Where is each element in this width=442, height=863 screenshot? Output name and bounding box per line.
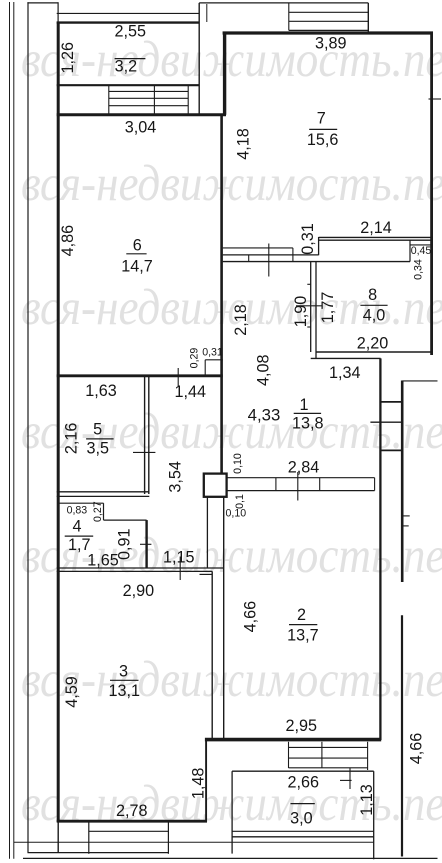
svg-text:13,8: 13,8 [292, 415, 324, 433]
svg-text:4,66: 4,66 [241, 601, 259, 633]
svg-text:2,66: 2,66 [288, 773, 320, 791]
svg-text:0,10: 0,10 [232, 453, 244, 474]
wall: elevator right [367, 3, 369, 32]
svg-text:2,78: 2,78 [116, 802, 148, 820]
wall: room 5 bottom line 1 [57, 491, 150, 493]
window: room 2 balcony line 1 [289, 746, 368, 748]
room 3 underline [110, 679, 139, 681]
wall: left wall lower extension [57, 822, 59, 853]
svg-text:3,89: 3,89 [315, 34, 347, 52]
wall: right shaft rung 3 [380, 449, 402, 451]
wall: opening divider 1 [248, 255, 250, 262]
wall: main left wall [57, 22, 60, 823]
svg-text:3,2: 3,2 [115, 57, 138, 75]
svg-text:1,15: 1,15 [163, 549, 195, 567]
wire: outer thin line left A [9, 2, 11, 859]
svg-text:0,29: 0,29 [189, 348, 201, 369]
svg-text:7: 7 [317, 109, 326, 127]
wall: corridor opening band bottom / room 8 top [223, 261, 410, 263]
balcony 3,0 inner bottom [232, 830, 374, 832]
wall: room 7 top [223, 31, 433, 34]
window: room 2 balcony mullion [321, 742, 323, 768]
wall: room 4 top [60, 502, 104, 504]
tick: right shaft small 2 [402, 525, 409, 527]
svg-text:2,16: 2,16 [63, 423, 81, 455]
svg-text:3,5: 3,5 [87, 440, 110, 458]
svg-text:2: 2 [297, 606, 306, 624]
wall: room 3 right lower [205, 740, 207, 822]
svg-text:4,18: 4,18 [234, 128, 252, 160]
wire: outer thin line left B [13, 2, 15, 859]
wall: right shaft vertical upper [401, 381, 404, 583]
svg-text:2,14: 2,14 [360, 219, 392, 237]
wall: room 2 top line 1 [227, 477, 375, 479]
wall: stairwell left [198, 3, 200, 114]
svg-text:2,95: 2,95 [285, 717, 317, 735]
window: room 2 balcony line 2 [289, 757, 368, 759]
window: room 2 top jamb right [319, 478, 321, 491]
svg-text:вся-недвижимость.net: вся-недвижимость.net [21, 32, 442, 88]
wall: room 8 left line 2 [315, 262, 317, 359]
wall: balcony 3,2 top [57, 21, 199, 23]
svg-text:6: 6 [133, 236, 142, 254]
window: room 6 balcony window line 2 [109, 97, 188, 99]
duct 0,29x0,31 left edge [204, 360, 206, 375]
svg-text:1,44: 1,44 [175, 383, 207, 401]
window: room 3 balcony jamb left [88, 822, 90, 854]
wall: room 1 right [379, 358, 381, 740]
wall: right shaft rung 2 [370, 421, 402, 423]
wall: corridor opening band top [223, 247, 293, 249]
area 3,2 overline [115, 58, 146, 60]
svg-text:2,20: 2,20 [357, 334, 389, 352]
wall: connector at room 8 top left [318, 237, 320, 255]
wall: balcony 3,2 parapet thin [57, 12, 199, 14]
wall: room 8 bottom line 1 [316, 351, 432, 353]
balcony 3,0 top [232, 770, 374, 772]
svg-text:вся-недвижимость.net: вся-недвижимость.net [21, 156, 442, 212]
svg-text:0,27: 0,27 [92, 501, 104, 522]
svg-text:0,83: 0,83 [67, 505, 88, 517]
svg-text:1,77: 1,77 [319, 292, 337, 324]
wall: room 7 bottom line 2 [319, 239, 431, 241]
svg-text:1,13: 1,13 [358, 784, 376, 816]
window: room 6 balcony window mullion [153, 86, 155, 114]
svg-text:4,08: 4,08 [254, 354, 272, 386]
svg-text:1,90: 1,90 [292, 296, 310, 328]
area 3,0 overline [291, 803, 315, 805]
window: room 2 balcony jamb right [367, 742, 369, 770]
svg-text:5: 5 [93, 420, 102, 438]
svg-text:3: 3 [119, 662, 128, 680]
svg-text:4,59: 4,59 [63, 676, 81, 708]
svg-text:1: 1 [299, 396, 308, 414]
window: room 3 balcony line 3 [28, 852, 169, 854]
balcony 3,0 right [373, 771, 375, 859]
wall: room 7 bottom line 1 [319, 236, 433, 238]
wall: left outer band top cap [27, 2, 58, 4]
svg-text:4,0: 4,0 [363, 307, 386, 325]
tick: dimension 1,90/1,77 [296, 305, 322, 307]
wall: right shaft rung 1 [380, 401, 402, 403]
tick: door jamb upper [307, 283, 310, 285]
tick: dimension 1,65/1,15 [179, 557, 181, 581]
balcony 3,0 left [231, 771, 233, 853]
room 7 underline [309, 128, 337, 130]
tick: right shaft small 1 [402, 515, 410, 517]
svg-text:3,04: 3,04 [125, 118, 157, 136]
wall: room 6 bottom [57, 374, 223, 377]
duct 0,45x0,34 left edge [409, 240, 411, 261]
window: room 3 balcony line 1 [89, 830, 169, 832]
tick: dimension 0,91 [140, 543, 151, 545]
tick: dimension 1,63/1,44 [177, 368, 179, 386]
wall: room 5 right line 2 [148, 376, 150, 494]
svg-text:1,63: 1,63 [85, 382, 117, 400]
wall: room 8 left line 1 [310, 262, 312, 352]
svg-text:0,31: 0,31 [299, 223, 317, 255]
window: room 3 balcony jamb right [167, 822, 169, 854]
wall: right shaft vertical lower [401, 615, 403, 856]
svg-text:15,6: 15,6 [307, 131, 339, 149]
room 2 underline [289, 624, 317, 626]
svg-text:2,84: 2,84 [288, 459, 320, 477]
wall: room 2 bottom [205, 738, 381, 742]
wall: elevator left [288, 3, 290, 31]
wall: room 3 bottom [57, 820, 207, 823]
svg-text:2,18: 2,18 [232, 304, 250, 336]
svg-text:1,34: 1,34 [329, 364, 361, 382]
wall: room 6 / room 7 divider [220, 115, 223, 474]
room 5 underline [86, 438, 114, 440]
svg-text:3,0: 3,0 [290, 810, 313, 828]
svg-text:0,31: 0,31 [202, 347, 223, 359]
svg-text:14,7: 14,7 [121, 257, 153, 275]
wall: room 4 notch horizontal [104, 519, 147, 521]
window: room 2 top jamb left [275, 478, 277, 491]
wall: elevator line 2 [289, 20, 369, 22]
svg-text:4,86: 4,86 [59, 225, 77, 257]
window: room 2 balcony jamb left [288, 742, 290, 768]
wall: room 2 top right cap [374, 478, 376, 491]
balcony 3,0 outer bottom [232, 836, 374, 838]
wall: corridor bottom line 1 [57, 567, 224, 569]
tick: right wall at 4,18 [429, 98, 442, 100]
svg-text:0,34: 0,34 [412, 259, 424, 280]
tick: dimension 2,84 [297, 472, 299, 501]
window: room 6 balcony window jamb left [108, 86, 110, 114]
svg-text:вся-недвижимость.net: вся-недвижимость.net [21, 652, 442, 708]
svg-text:0,10: 0,10 [225, 508, 246, 520]
window: room 6 balcony window line 1 [109, 90, 188, 92]
wall: elevator bottom [289, 29, 369, 31]
wall: opening divider 2 [292, 248, 294, 262]
svg-text:3,54: 3,54 [167, 461, 185, 493]
wall: left outer band outer edge [27, 2, 29, 853]
svg-text:2,55: 2,55 [114, 23, 146, 41]
room 1 underline [294, 412, 321, 414]
svg-text:13,1: 13,1 [109, 682, 141, 700]
wall: room 4 right [145, 520, 147, 567]
wall: room 8 bottom line 2 [311, 357, 381, 359]
wall: rooms 2/3 divider right line [223, 497, 225, 740]
svg-text:8: 8 [368, 286, 377, 304]
duct 0,45x0,34 top edge [410, 244, 432, 246]
svg-text:4: 4 [72, 517, 81, 535]
tick: door jamb lower [307, 326, 310, 328]
wall: room 5 right line 1 [144, 376, 146, 494]
wire: bottom boundary outer [23, 857, 438, 859]
tick: dimension 0,31 at corridor [268, 244, 270, 277]
window: room 6 balcony window line 3 [109, 105, 188, 107]
wall: elevator line 1 [289, 11, 369, 13]
wall: right outer upper [430, 32, 433, 356]
wall: room 2 top line 2 [227, 490, 375, 492]
wall: rooms 2/3 divider upper left line [206, 497, 208, 568]
room 6 underline [126, 253, 146, 255]
wall: divider cap [200, 573, 213, 575]
room 4 underline [65, 535, 94, 537]
wall: stairwell top [199, 2, 368, 4]
tick: room 5 door [133, 451, 155, 453]
wall: room 4 notch vertical [103, 503, 105, 520]
svg-text:1,26: 1,26 [59, 42, 77, 74]
wall: corridor opening band mid [223, 254, 319, 256]
wall: balcony 3,2 floor edge [57, 84, 199, 86]
wall: corridor bottom line 2 [57, 570, 213, 572]
wire: bottom boundary inner [14, 841, 374, 843]
wall: rooms 2/3 divider lower left line [211, 571, 213, 740]
wire: thin gray exterior line right [402, 380, 437, 382]
svg-text:4,66: 4,66 [408, 733, 426, 765]
tick: dimension 1,13 horizontal [340, 779, 352, 781]
svg-text:1,48: 1,48 [190, 768, 208, 800]
wall: left outer band inner edge upper [57, 2, 59, 22]
svg-text:13,7: 13,7 [287, 626, 319, 644]
svg-text:2,90: 2,90 [123, 582, 155, 600]
wall: balcony parapet corner stub [206, 4, 208, 22]
duct 0,29x0,31 top edge [205, 359, 223, 361]
column 0,42 square [204, 474, 227, 497]
room 8 underline [360, 304, 387, 306]
wall: room 7 left upper [223, 32, 226, 115]
svg-text:вся-недвижимость.net: вся-недвижимость.net [21, 404, 442, 460]
wall: room 6 top [57, 113, 226, 116]
tick: dimension 2,66/1,13 vertical [349, 768, 351, 789]
svg-text:1,65: 1,65 [87, 552, 119, 570]
window: room 2 balcony line 3 [289, 767, 368, 769]
svg-text:0,45: 0,45 [411, 245, 432, 257]
svg-text:4,33: 4,33 [248, 406, 281, 425]
window: room 6 balcony window jamb right [187, 86, 189, 114]
wall: room 5 bottom line 2 [57, 495, 150, 497]
